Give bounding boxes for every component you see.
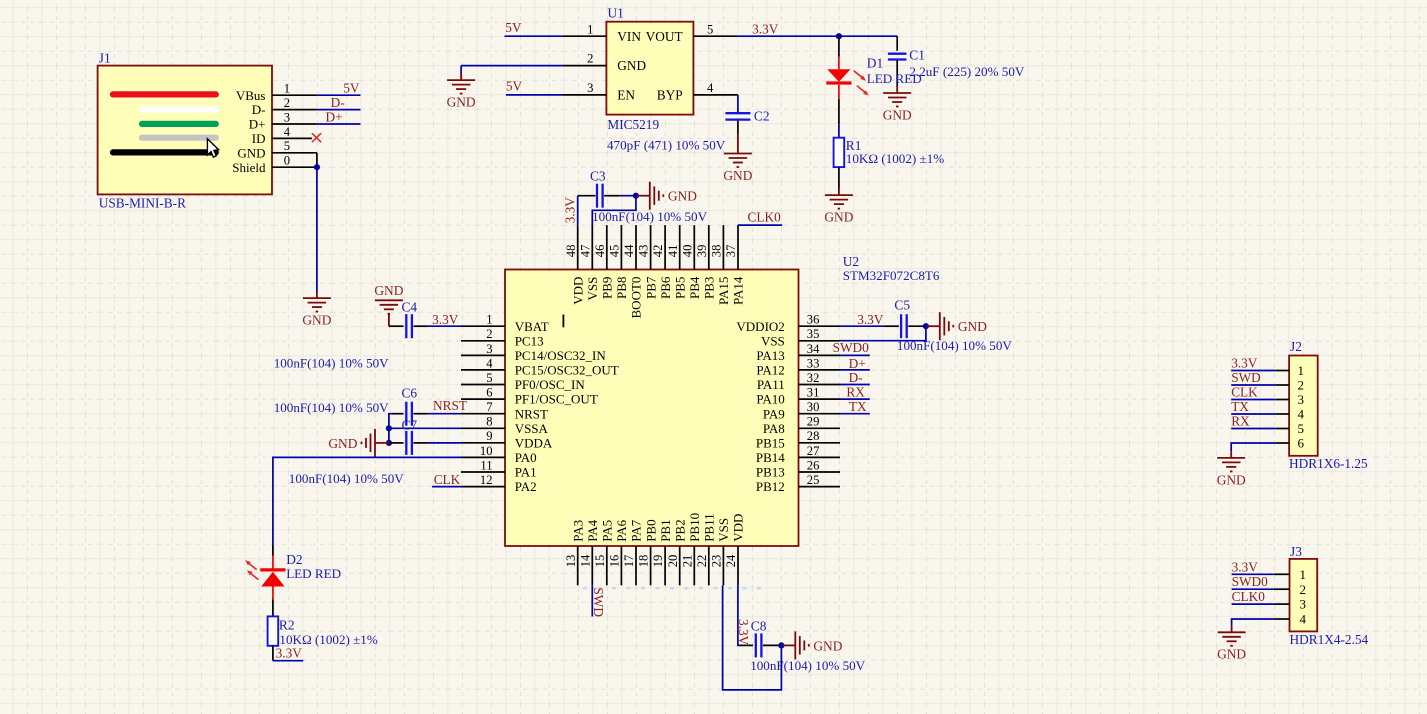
svg-text:PB4: PB4 [687, 276, 702, 299]
wire SWD0 [840, 354, 870, 356]
J3 part name HDR1X4-2.54 [1290, 632, 1369, 647]
svg-text:PF0/OSC_IN: PF0/OSC_IN [515, 377, 586, 392]
svg-text:J3: J3 [1290, 544, 1302, 559]
wire gnd to C4 [389, 325, 404, 327]
svg-text:PF1/OSC_OUT: PF1/OSC_OUT [515, 392, 598, 407]
svg-text:SWD0: SWD0 [833, 340, 870, 355]
wire U1 pin 4 down to C2 [737, 95, 739, 113]
svg-text:2: 2 [587, 52, 593, 66]
svg-text:2: 2 [1300, 582, 1307, 597]
ground symbol below C1 [883, 86, 912, 122]
net label SWD0 at J3 [1232, 574, 1269, 589]
wire U2 pin 24 VDD down to C8 [738, 585, 753, 645]
svg-text:PA12: PA12 [756, 363, 784, 378]
svg-text:4: 4 [1298, 407, 1305, 422]
wire TX to J2 pin 4 [1231, 413, 1275, 415]
J3 pin 4 [1274, 612, 1307, 627]
wire U2 pin 10 PA0 to D2 [273, 457, 461, 545]
svg-text:U1: U1 [608, 5, 624, 20]
wire U2 pin48 up to C3 [578, 196, 596, 225]
wire D+ [840, 369, 870, 371]
svg-text:470pF (471) 10% 50V: 470pF (471) 10% 50V [607, 138, 726, 153]
ground symbol right of C3 [636, 182, 697, 210]
U2 pin 15 PA5 (bottom) [593, 520, 615, 585]
svg-text:100nF(104) 10% 50V: 100nF(104) 10% 50V [274, 400, 389, 415]
net label SWD0 at PA13 [833, 340, 870, 355]
svg-text:5V: 5V [505, 20, 522, 35]
svg-text:PB8: PB8 [614, 277, 629, 299]
ground symbol left of C7 [328, 429, 389, 457]
D2 value LED RED [286, 566, 341, 581]
U2 pin 14 PA4 (bottom) [578, 519, 600, 585]
svg-text:GND: GND [668, 189, 697, 204]
svg-text:LED RED: LED RED [286, 566, 341, 581]
svg-text:GND: GND [1217, 472, 1246, 487]
wire J2 pin 6 to ground [1231, 443, 1275, 451]
svg-text:22: 22 [695, 555, 709, 568]
svg-text:3: 3 [284, 110, 290, 124]
svg-text:D-: D- [252, 102, 266, 117]
svg-text:4: 4 [284, 125, 291, 139]
U2 pin 36 VDDIO2 [736, 313, 840, 334]
net label 3.3V at J3 [1232, 559, 1259, 574]
svg-text:3: 3 [486, 342, 492, 356]
svg-text:C8: C8 [751, 619, 767, 634]
wire C6 right to U2 pin 7 NRST [414, 413, 462, 415]
ground symbol right of C8 [781, 631, 842, 659]
net label CLK0 at J3 [1232, 589, 1266, 604]
J2 pin 1 [1275, 363, 1304, 378]
capacitor C3 [597, 184, 603, 208]
svg-text:VSSA: VSSA [515, 421, 549, 436]
svg-text:PA2: PA2 [515, 479, 537, 494]
svg-text:3: 3 [1300, 597, 1307, 612]
svg-text:16: 16 [608, 555, 622, 568]
svg-text:GND: GND [617, 58, 646, 73]
svg-text:6: 6 [1298, 436, 1305, 451]
wire 5V from J1 pin 1 [317, 94, 361, 96]
wire C7 left to junction [389, 442, 404, 444]
wire CLK0 from U2 pin 37 [738, 224, 782, 226]
svg-text:GND: GND [328, 436, 357, 451]
U1 pin 1 VIN [563, 22, 642, 44]
svg-text:NRST: NRST [515, 406, 548, 421]
wire CLK to U2 pin 12 PA2 [432, 486, 461, 488]
no-connect X on J1 pin 4 [312, 133, 321, 142]
U2 pin 17 PA7 (bottom) [622, 519, 644, 585]
U2 pin 22 PB11 (bottom) [695, 513, 717, 585]
svg-text:PB9: PB9 [600, 277, 615, 299]
net label SWD rotated [591, 587, 606, 617]
net label 3.3V rotated at C8 [736, 619, 751, 646]
svg-text:PA11: PA11 [757, 377, 785, 392]
U1 pin 5 VOUT [646, 22, 738, 44]
net label 3.3V at J2 [1231, 356, 1258, 371]
svg-text:PB12: PB12 [756, 479, 785, 494]
net label 3.3V at VBAT [432, 312, 459, 327]
ground symbol below J2 [1217, 451, 1246, 487]
ground symbol below J1 [302, 292, 331, 328]
svg-text:VSS: VSS [716, 518, 731, 542]
wire CLK to J2 pin 3 [1231, 399, 1275, 401]
U2 pin 29 PA8 [763, 415, 840, 436]
U2 pin 35 VSS [761, 327, 840, 348]
J2 pin 3 [1275, 392, 1304, 407]
svg-text:21: 21 [680, 555, 694, 568]
svg-text:24: 24 [724, 554, 738, 567]
J2 pin 4 [1275, 407, 1304, 422]
svg-text:PA1: PA1 [515, 465, 537, 480]
wire C6 left down to VSSA junction [389, 414, 404, 429]
faint selection dashes under U2 bottom pins [583, 587, 762, 590]
net label CLK at J2 [1231, 385, 1258, 400]
svg-text:17: 17 [622, 555, 636, 568]
svg-text:C6: C6 [402, 386, 418, 401]
svg-text:3.3V: 3.3V [736, 619, 751, 646]
svg-text:37: 37 [724, 245, 738, 258]
svg-text:PC15/OSC32_OUT: PC15/OSC32_OUT [515, 363, 619, 378]
svg-text:10: 10 [480, 444, 493, 458]
wire D- from J1 pin 2 [317, 109, 361, 111]
svg-text:CLK: CLK [434, 472, 461, 487]
svg-text:PA5: PA5 [600, 520, 615, 542]
svg-text:42: 42 [651, 245, 665, 258]
resistor R2 [268, 616, 279, 645]
svg-text:GND: GND [723, 168, 752, 183]
J3 pin 2 [1274, 582, 1306, 597]
svg-text:26: 26 [807, 458, 820, 472]
svg-text:PB11: PB11 [702, 513, 717, 541]
svg-text:25: 25 [807, 473, 820, 487]
wire J1 shield down to ground [316, 167, 318, 291]
wire C5 to junction [908, 325, 926, 327]
U2 pin 10 PA0 [461, 444, 537, 465]
C5 designator [894, 297, 910, 312]
svg-text:4: 4 [707, 81, 714, 95]
U2 pin 4 PC15/OSC32_OUT [461, 356, 619, 377]
J2 part name HDR1X6-1.25 [1289, 456, 1368, 471]
svg-text:PC13: PC13 [515, 333, 544, 348]
svg-text:PA14: PA14 [731, 276, 746, 305]
svg-text:100nF(104) 10% 50V: 100nF(104) 10% 50V [274, 356, 389, 371]
svg-text:19: 19 [651, 555, 665, 568]
J1 pin 4 ID [252, 125, 312, 146]
U2 pin 37 PA14 (top) [724, 225, 746, 305]
svg-text:HDR1X6-1.25: HDR1X6-1.25 [1289, 456, 1368, 471]
svg-text:MIC5219: MIC5219 [607, 117, 659, 132]
J3 pin 1 [1274, 567, 1306, 582]
J1 red VBus bar [113, 91, 216, 97]
svg-text:CLK0: CLK0 [748, 209, 782, 224]
svg-text:8: 8 [486, 415, 492, 429]
svg-text:PA8: PA8 [763, 421, 785, 436]
junction J1 GND/Shield [314, 164, 320, 170]
J1 pin 5 GND [237, 139, 317, 160]
U2 pin 45 PB8 (top) [608, 225, 630, 299]
svg-text:PB15: PB15 [756, 435, 785, 450]
U2 pin 34 PA13 [756, 342, 840, 363]
svg-text:7: 7 [486, 400, 492, 414]
svg-text:GND: GND [813, 638, 842, 653]
svg-text:5V: 5V [343, 80, 360, 95]
svg-text:3: 3 [1298, 392, 1305, 407]
J2 pin 2 [1275, 378, 1304, 393]
U2 pin 39 PB3 (top) [695, 225, 717, 299]
svg-text:29: 29 [807, 415, 820, 429]
svg-text:D2: D2 [286, 552, 302, 567]
U2 pin 27 PB14 [756, 444, 840, 465]
U2 pin 9 VDDA [461, 429, 553, 450]
svg-text:D1: D1 [867, 56, 883, 71]
svg-text:GND: GND [374, 283, 403, 298]
svg-text:C2: C2 [754, 109, 770, 124]
svg-text:GND: GND [824, 210, 853, 225]
svg-text:43: 43 [637, 245, 651, 258]
U2 pin 18 PB0 (bottom) [637, 519, 659, 585]
C3 designator [590, 169, 606, 184]
wire SWD to J2 pin 2 [1231, 384, 1275, 386]
junction VSSA [386, 425, 392, 431]
net label 5V at U1 pin3 [506, 79, 523, 94]
svg-text:100nF(104) 10% 50V: 100nF(104) 10% 50V [289, 471, 404, 486]
junction C3/GND [633, 193, 639, 199]
wire D1 to R1 [838, 85, 840, 138]
U1 pin 2 GND [563, 52, 647, 73]
svg-text:USB-MINI-B-R: USB-MINI-B-R [99, 196, 186, 211]
J1 grey ID bar [142, 135, 216, 141]
ground symbol right of C5 [926, 312, 987, 340]
svg-text:39: 39 [695, 245, 709, 258]
svg-text:4: 4 [486, 356, 493, 370]
ground symbol above C4 [374, 283, 403, 326]
ground symbol below J3 [1217, 626, 1246, 662]
connector J2 body [1289, 356, 1318, 456]
svg-text:0: 0 [284, 154, 290, 168]
U2 pin 48 VDD (top) [564, 225, 586, 305]
wire 5V to U1 pin 1 [505, 35, 563, 37]
ground symbol below C2 [723, 147, 752, 183]
U2 pin 25 PB12 [756, 473, 840, 494]
svg-text:J2: J2 [1290, 339, 1302, 354]
svg-text:3.3V: 3.3V [752, 22, 779, 37]
svg-text:CLK: CLK [1231, 385, 1258, 400]
C6 designator [402, 386, 418, 401]
svg-text:TX: TX [1231, 399, 1249, 414]
U2 part name STM32F072C8T6 [843, 268, 940, 283]
svg-text:PA10: PA10 [756, 392, 784, 407]
svg-text:RX: RX [1231, 414, 1250, 429]
svg-text:J1: J1 [99, 50, 111, 65]
svg-text:GND: GND [302, 313, 331, 328]
svg-text:ID: ID [252, 131, 266, 146]
wire U1 pin 2 to ground [461, 66, 562, 74]
R2 value 10K [279, 632, 377, 647]
svg-text:VDDA: VDDA [515, 435, 553, 450]
svg-text:D-: D- [331, 95, 345, 110]
svg-text:STM32F072C8T6: STM32F072C8T6 [843, 268, 940, 283]
svg-text:1: 1 [486, 313, 492, 327]
svg-text:R2: R2 [279, 618, 295, 633]
capacitor C2 [725, 113, 750, 119]
U2 pin 8 VSSA [461, 415, 549, 436]
wire D2 to R2 [272, 587, 274, 617]
svg-text:PB2: PB2 [672, 519, 687, 541]
svg-text:45: 45 [608, 245, 622, 258]
wire R2 down to 3.3V [273, 646, 303, 661]
svg-text:PB10: PB10 [687, 513, 702, 542]
wire RX [840, 398, 870, 400]
svg-text:PA7: PA7 [629, 519, 644, 541]
svg-text:PB14: PB14 [756, 450, 785, 465]
U2 pin 38 PA15 (top) [710, 225, 732, 305]
U2 pin 16 PA6 (bottom) [608, 519, 630, 585]
svg-text:5: 5 [707, 22, 713, 36]
svg-text:31: 31 [807, 386, 820, 400]
svg-text:PC14/OSC32_IN: PC14/OSC32_IN [515, 348, 607, 363]
svg-text:13: 13 [564, 555, 578, 568]
svg-text:30: 30 [807, 400, 820, 414]
net label 3.3V rail [752, 22, 779, 37]
U2 pin 33 PA12 [756, 356, 840, 377]
svg-text:41: 41 [666, 245, 680, 258]
C7 designator [402, 418, 418, 433]
svg-text:PA13: PA13 [756, 348, 784, 363]
net label 3.3V at R2 [276, 645, 303, 660]
net label 5V at J1 [343, 80, 360, 95]
svg-text:VIN: VIN [617, 29, 641, 44]
J1 black GND bar [113, 149, 216, 155]
ground symbol below R1 [824, 189, 853, 225]
wire C8 to junction [763, 644, 781, 646]
J3 pin 3 [1274, 597, 1306, 612]
svg-text:D+: D+ [326, 110, 343, 125]
svg-text:44: 44 [622, 244, 636, 257]
svg-text:D+: D+ [249, 117, 266, 132]
svg-text:3.3V: 3.3V [1231, 356, 1258, 371]
wire 3.3V to J2 pin 1 [1231, 370, 1275, 372]
svg-text:3.3V: 3.3V [563, 197, 578, 224]
wire junction to U2 pin 8 VSSA [389, 427, 461, 429]
C7 value 100nF [289, 471, 404, 486]
svg-text:14: 14 [578, 554, 592, 567]
wire 3.3V to C5 from U2 pin 36 [840, 325, 899, 327]
C3 value 100nF [592, 209, 707, 224]
capacitor C8 [756, 633, 762, 657]
svg-text:18: 18 [637, 555, 651, 568]
U2 pin 26 PB13 [756, 458, 840, 479]
net label CLK0 [748, 209, 782, 224]
connector J3 body [1290, 559, 1318, 632]
wire junction down to U2 pin 35 VSS [840, 326, 926, 341]
svg-text:2: 2 [284, 96, 290, 110]
svg-text:PA0: PA0 [515, 450, 537, 465]
wire C3 to junction [604, 195, 636, 197]
net label D- at J1 [331, 95, 345, 110]
svg-text:RX: RX [846, 384, 865, 399]
svg-text:BOOT0: BOOT0 [629, 277, 644, 319]
svg-text:PB1: PB1 [658, 519, 673, 541]
svg-text:EN: EN [617, 88, 635, 103]
R1 designator [846, 138, 862, 153]
junction C5/GND [923, 323, 929, 329]
svg-text:15: 15 [593, 555, 607, 568]
ground symbol at U1 pin 2 [447, 74, 476, 110]
C1 designator [909, 48, 925, 63]
U2 pin 20 PB2 (bottom) [666, 519, 688, 585]
J2 pin 5 [1275, 421, 1304, 436]
U2 pin 42 PB6 (top) [651, 225, 673, 299]
mouse cursor [207, 139, 218, 157]
resistor R1 [834, 138, 845, 167]
svg-text:GND: GND [883, 107, 912, 122]
wire 3.3V down to C1 [896, 36, 898, 51]
U2 pin 1 VBAT [461, 313, 549, 334]
wire C4 to U2 pin 1 VBAT [414, 325, 462, 327]
svg-text:3.3V: 3.3V [276, 645, 303, 660]
svg-text:PB3: PB3 [702, 277, 717, 299]
svg-text:BYP: BYP [657, 88, 683, 103]
svg-text:PB6: PB6 [658, 276, 673, 299]
wire D+ from J1 pin 3 [317, 123, 361, 125]
wire TX [840, 413, 870, 415]
net label TX at J2 [1231, 399, 1249, 414]
J3 designator [1290, 544, 1302, 559]
svg-text:Shield: Shield [232, 160, 266, 175]
C6 value 100nF [274, 400, 389, 415]
svg-text:3: 3 [587, 81, 593, 95]
U1 pin 4 BYP [657, 81, 738, 103]
C1 value 2.2uF [909, 64, 1024, 79]
svg-text:27: 27 [807, 444, 820, 458]
C5 value 100nF [897, 338, 1012, 353]
svg-text:11: 11 [480, 458, 492, 472]
U2 pin 19 PB1 (bottom) [651, 519, 673, 585]
C4 value 100nF [274, 356, 389, 371]
svg-text:TX: TX [849, 399, 867, 414]
net label TX at PA9 [849, 399, 867, 414]
svg-text:PB7: PB7 [643, 276, 658, 299]
U2 pin 30 PA9 [763, 400, 840, 421]
svg-text:48: 48 [564, 245, 578, 258]
svg-text:PA4: PA4 [585, 519, 600, 541]
text cursor artifact near VBAT [562, 315, 564, 328]
svg-text:3.3V: 3.3V [432, 312, 459, 327]
svg-text:1: 1 [284, 82, 290, 96]
capacitor C1 [888, 54, 907, 60]
svg-text:VOUT: VOUT [646, 29, 683, 44]
U2 pin 12 PA2 [461, 473, 537, 494]
U2 pin 23 VSS (bottom) [710, 518, 732, 585]
U2 pin 2 PC13 [461, 327, 544, 348]
svg-text:D-: D- [849, 370, 863, 385]
svg-text:5: 5 [284, 139, 290, 153]
svg-text:5: 5 [1298, 421, 1305, 436]
svg-text:5V: 5V [506, 79, 523, 94]
svg-text:6: 6 [486, 386, 492, 400]
wire R1 to ground [838, 167, 840, 188]
junction GND C7 [386, 440, 392, 446]
U2 pin 6 PF1/OSC_OUT [461, 386, 598, 407]
D1 designator [867, 56, 883, 71]
svg-text:SWD: SWD [1231, 370, 1261, 385]
U2 pin 24 VDD (bottom) [724, 514, 746, 586]
net label CLK at U2 pin 12 [434, 472, 461, 487]
D2 designator [286, 552, 302, 567]
wire 3.3V junction down to D1 [838, 36, 840, 69]
J1 white D- bar [142, 106, 216, 112]
U2 pin 21 PB10 (bottom) [680, 513, 702, 585]
svg-text:46: 46 [593, 245, 607, 258]
